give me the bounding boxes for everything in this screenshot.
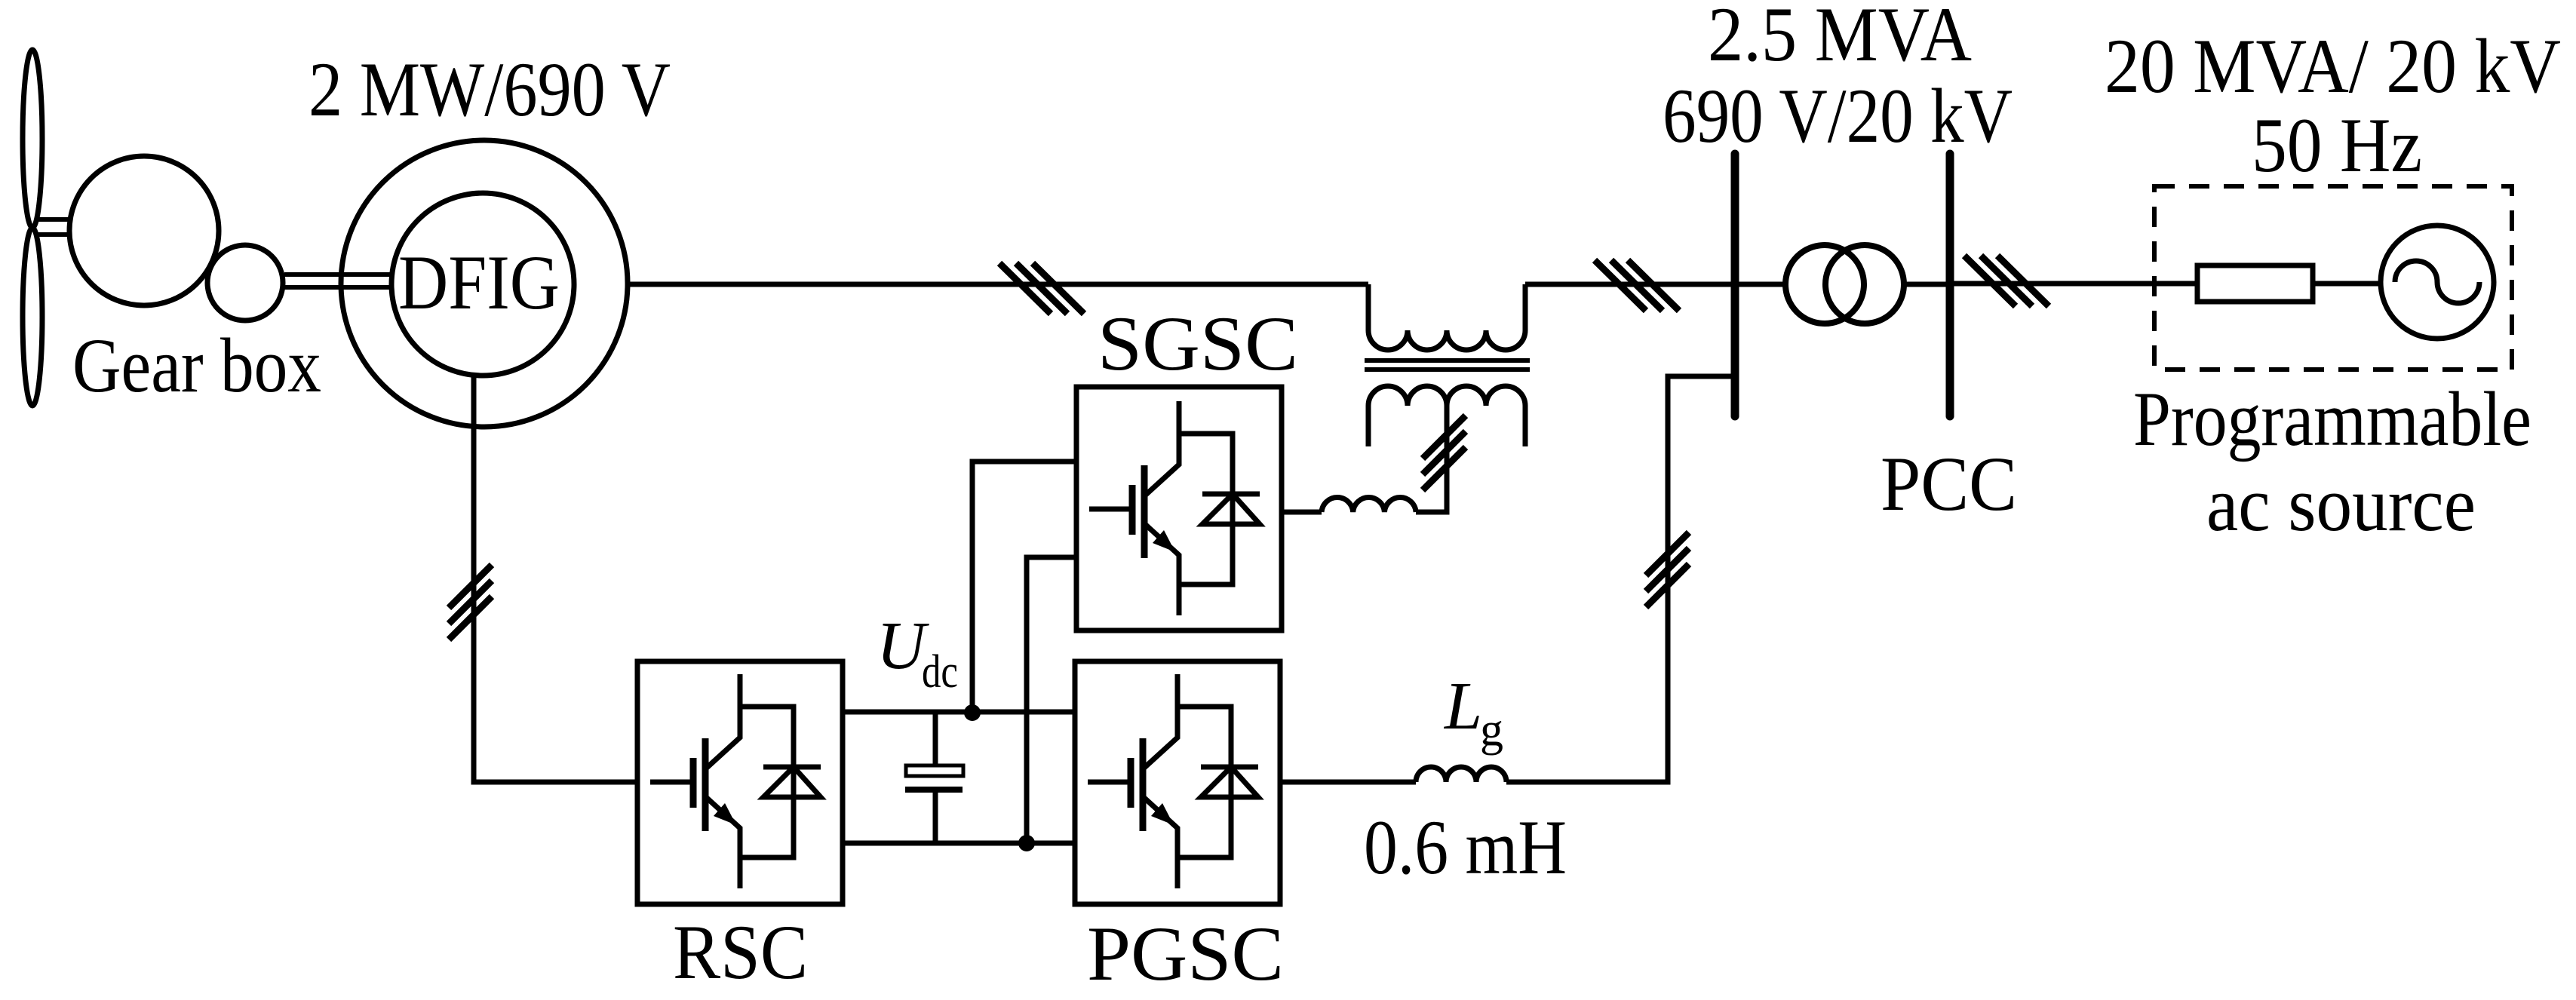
wire DC link negative rail — [843, 841, 1075, 846]
transformer T1 circle A — [1785, 245, 1864, 324]
svg-text:Programmable: Programmable — [2133, 376, 2531, 462]
DFIG inner circle (rotor) — [391, 193, 574, 376]
gear box small wheel — [207, 245, 283, 321]
series transformer secondary winding — [1368, 386, 1525, 446]
svg-text:50 Hz: 50 Hz — [2252, 103, 2422, 189]
svg-text:20 MVA/ 20 kV: 20 MVA/ 20 kV — [2105, 23, 2561, 109]
svg-text:PCC: PCC — [1881, 441, 2017, 527]
transformer T1 circle B — [1825, 245, 1904, 324]
svg-text:ac source: ac source — [2206, 462, 2476, 548]
DC link capacitor bottom plate — [905, 787, 963, 793]
grid inductor Lg — [1416, 767, 1506, 782]
wire Lg to LV busbar — [1506, 376, 1731, 782]
gear box large wheel — [69, 156, 219, 305]
svg-text:DFIG: DFIG — [398, 240, 560, 326]
wind turbine blade lower — [23, 228, 42, 406]
sine symbol inside ac source — [2395, 261, 2479, 303]
PGSC IGBT symbol — [1088, 674, 1258, 888]
LV busbar 690V — [1731, 154, 1739, 416]
three-phase slashes on stator line — [999, 263, 1084, 314]
wire resistor to ac source — [2313, 281, 2381, 287]
svg-text:PGSC: PGSC — [1087, 911, 1284, 997]
wire transformer T1 to PCC busbar — [1906, 282, 1950, 287]
three-phase slashes before LV busbar — [1595, 260, 1679, 311]
programmable ac source circle — [2381, 225, 2494, 339]
svg-text:dc: dc — [922, 646, 958, 698]
SGSC filter inductor — [1322, 498, 1416, 512]
wind turbine blade upper — [23, 50, 42, 228]
svg-text:g: g — [1480, 704, 1503, 756]
DFIG outer circle (stator) — [341, 140, 628, 427]
wire LV busbar to transformer T1 — [1735, 282, 1783, 287]
wire DFIG rotor down to RSC — [474, 375, 637, 782]
wire PCC busbar to programmable source — [1950, 281, 2197, 287]
RSC converter box — [637, 661, 843, 904]
svg-text:SGSC: SGSC — [1098, 301, 1298, 387]
wire stator line DFIG to series transformer — [628, 282, 1368, 287]
svg-text:2 MW/690 V: 2 MW/690 V — [309, 47, 671, 133]
SGSC IGBT symbol — [1089, 401, 1260, 615]
PGSC converter box — [1075, 661, 1280, 904]
turbine shaft double line — [38, 219, 72, 235]
wire stator line transformer to LV busbar — [1525, 282, 1731, 287]
svg-text:L: L — [1443, 669, 1482, 744]
svg-text:2.5 MVA: 2.5 MVA — [1708, 0, 1972, 78]
series transformer primary winding — [1368, 284, 1525, 350]
wire PGSC output to Lg inductor — [1280, 780, 1416, 785]
svg-text:690 V/20 kV: 690 V/20 kV — [1663, 73, 2013, 159]
SGSC converter box — [1076, 387, 1282, 630]
PCC busbar 20kV — [1946, 154, 1954, 416]
grid impedance resistor — [2197, 265, 2313, 302]
series transformer core lines — [1365, 360, 1530, 370]
generator shaft double line — [284, 275, 392, 287]
wire DC link positive rail — [843, 710, 1075, 715]
svg-text:RSC: RSC — [673, 910, 808, 995]
node junction DC positive — [964, 704, 981, 721]
DC link capacitor leads — [933, 712, 938, 843]
wire SGSC output to filter inductor — [1282, 510, 1322, 515]
node junction DC negative — [1018, 835, 1035, 851]
DC link capacitor top plate — [906, 765, 963, 776]
wire DC positive up to SGSC — [972, 462, 1076, 712]
wire DC negative up to SGSC — [1027, 557, 1076, 843]
three-phase slashes on rotor wire — [449, 565, 492, 640]
three-phase slashes on centre tap wire — [1423, 416, 1466, 490]
RSC IGBT symbol — [650, 674, 821, 888]
three-phase slashes after PCC busbar — [1964, 256, 2049, 306]
three-phase slashes on PGSC grid wire — [1646, 532, 1689, 607]
svg-text:0.6 mH: 0.6 mH — [1364, 805, 1567, 891]
dashed enclosure of programmable ac source — [2154, 186, 2512, 370]
svg-text:Gear box: Gear box — [72, 323, 321, 409]
wire secondary centre tap down to SGSC filter — [1416, 406, 1447, 512]
